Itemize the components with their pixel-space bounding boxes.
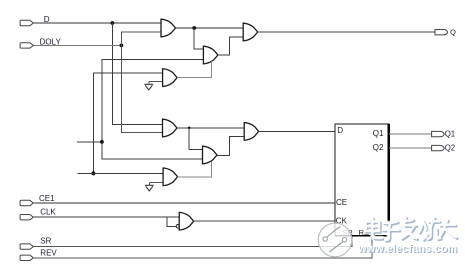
inverter bubble: [176, 225, 180, 229]
wire G2 lower input from bus: [102, 59, 203, 158]
input pin CLK: [20, 215, 33, 220]
wire G8 output riser: [178, 162, 212, 177]
flip-flop U1 body: [335, 124, 389, 236]
node junction G4 output: [188, 127, 191, 130]
buffer gate G9 clock: [179, 212, 194, 230]
wire CLK branch to bubble: [167, 217, 176, 226]
wire CE1 line to flip-flop CE: [33, 202, 335, 204]
and gate G1: [161, 19, 176, 37]
input pin REV: [20, 255, 33, 260]
wire G5 output up to OR G6: [217, 136, 244, 155]
svg-text:Q1: Q1: [373, 129, 384, 138]
watermark chinese characters: [366, 217, 458, 241]
wire G4 output to OR G6: [177, 127, 244, 129]
output pin Q2: [432, 145, 445, 150]
svg-text:Q2: Q2: [373, 143, 384, 152]
wire GND stub G7: [149, 81, 163, 84]
wire Q output line: [258, 31, 435, 33]
ground symbol bottom: [145, 185, 154, 191]
buffer gate G8: [163, 168, 178, 186]
wire buffer G7 upper input from bus: [94, 73, 163, 173]
node junction bus x93: [91, 171, 95, 175]
svg-text:SR: SR: [40, 236, 51, 245]
wire Q2 output line: [389, 147, 432, 149]
svg-text:CE1: CE1: [39, 194, 55, 203]
wire GND stub G8: [149, 182, 163, 185]
wire D riser to AND G4: [112, 23, 162, 124]
wire CLK line: [33, 216, 179, 218]
node junction on D line: [111, 21, 115, 25]
wire buffer G8 upper input line: [78, 172, 164, 174]
wire G6 output to flip-flop D input: [259, 131, 335, 133]
wire SR line: [33, 236, 352, 247]
wire DOLY riser down to AND G4: [121, 45, 162, 132]
svg-text:D: D: [44, 15, 50, 24]
or gate G6: [244, 123, 259, 141]
svg-text:CE: CE: [336, 198, 347, 207]
wire riser from G4 output to AND G5: [189, 128, 202, 150]
input pin CE1: [20, 200, 33, 205]
wire REV line: [33, 236, 372, 258]
wire Q1 output line: [389, 133, 432, 135]
buffer gate G7: [163, 69, 178, 87]
ground symbol top: [144, 84, 153, 90]
svg-text:CLK: CLK: [40, 208, 56, 217]
node junction on DOLY line: [120, 44, 124, 48]
svg-text:REV: REV: [40, 249, 57, 258]
wire G2 output up to OR G3: [218, 37, 243, 55]
svg-text:Q2: Q2: [445, 144, 455, 153]
svg-text:www.elecfans.com: www.elecfans.com: [357, 243, 457, 255]
wire DOLY line: [33, 44, 121, 46]
and gate G2: [203, 46, 218, 64]
svg-text:Q1: Q1: [445, 130, 455, 139]
flip-flop U1 thick right edge: [388, 124, 391, 236]
node junction bus x102: [100, 140, 104, 144]
input pin D: [20, 20, 33, 25]
flip-flop U1 thick bottom edge: [335, 235, 389, 237]
input pin SR: [20, 244, 33, 249]
node junction G1 output: [192, 26, 196, 30]
svg-text:D: D: [337, 126, 343, 135]
wire G9 output to flip-flop CK: [194, 220, 335, 222]
wire D line: [33, 22, 161, 24]
watermark logo circle: [318, 223, 352, 257]
input pin DOLY: [20, 43, 33, 48]
and gate G5: [203, 146, 218, 164]
or gate G3: [243, 23, 258, 41]
wire G1 output to OR G3: [176, 27, 244, 29]
svg-text:Q: Q: [450, 28, 456, 37]
and gate G4: [163, 119, 178, 137]
output pin Q: [435, 30, 448, 35]
wire G7 output riser: [177, 61, 211, 78]
wire stub into bus: [77, 141, 102, 143]
output pin Q1: [432, 131, 445, 136]
wire riser from G1 output to AND G2: [194, 28, 203, 49]
wire DOLY riser up to AND G1: [121, 32, 161, 45]
